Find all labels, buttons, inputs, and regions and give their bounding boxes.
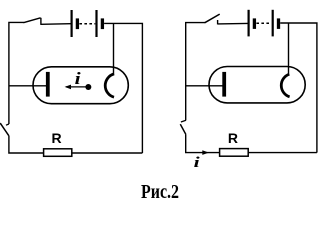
wire: resistor R1 to bottom-left corner <box>9 136 44 153</box>
wire: switch S3 to battery B2 <box>218 22 248 25</box>
cathode bar (V1) <box>46 72 50 97</box>
vacuum tube V1 envelope <box>33 67 128 104</box>
current arrowhead i on bottom wire (right circuit) <box>202 150 209 155</box>
svg-text:R: R <box>51 130 61 146</box>
switch S1 (open, top of left circuit) <box>23 18 41 25</box>
wire: bottom rail, right corner to resistor R1 <box>72 152 143 154</box>
wire: bottom rail, right corner to resistor R2 <box>248 152 317 154</box>
cathode bar (V2) <box>222 72 226 97</box>
battery B1 (multi-cell with dashed continuation) <box>72 10 103 37</box>
svg-text:Рис.2: Рис.2 <box>141 181 179 203</box>
wire: resistor R2 to bottom-left corner <box>186 134 220 152</box>
vacuum tube V2 envelope <box>209 67 305 103</box>
wire: battery B2 to top-right corner and right rail <box>280 23 317 153</box>
switch S4 (open, bottom-left of right circuit) <box>180 120 186 134</box>
anode arc (V2) <box>281 74 289 97</box>
svg-text:R: R <box>228 130 238 146</box>
wire: left rail to cathode of V1 <box>9 85 48 87</box>
battery B2 (multi-cell with dashed continuation) <box>249 10 279 37</box>
resistor R1 <box>44 149 72 157</box>
current arrow i inside V1 (line, head, dot) <box>65 84 92 90</box>
wire: battery B1 to top-right corner and right rail <box>104 23 142 153</box>
wire: right circuit top-left corner and left rail <box>186 23 205 121</box>
anode arc (V1) <box>105 74 114 97</box>
wire: left circuit top-left corner and left rail <box>9 22 24 124</box>
switch S3 (open, top of right circuit) <box>205 14 220 24</box>
svg-text:i: i <box>75 69 81 88</box>
wire: top rail dropping to anode of V2 <box>288 23 290 75</box>
wire: switch S1 to battery B1 <box>41 23 71 26</box>
wire: top rail dropping to anode of V1 <box>113 23 115 74</box>
resistor R2 <box>220 149 249 157</box>
switch S2 (open, bottom-left of left circuit) <box>0 123 9 136</box>
wire: left rail to cathode of V2 <box>186 85 224 87</box>
